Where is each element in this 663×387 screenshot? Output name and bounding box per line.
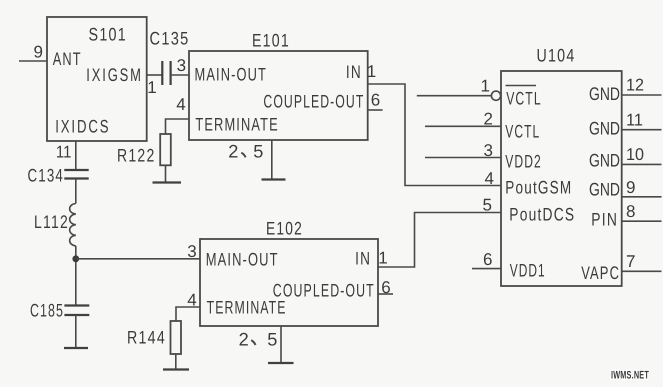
svg-text:2: 2: [228, 142, 238, 162]
svg-text:E101: E101: [252, 31, 290, 51]
wire E102 TERMINATE to R144: [176, 307, 200, 321]
svg-text:TERMINATE: TERMINATE: [195, 115, 278, 135]
svg-text:S101: S101: [89, 25, 128, 45]
svg-text:COUPLED-OUT: COUPLED-OUT: [273, 281, 375, 301]
svg-text:5: 5: [253, 142, 263, 162]
svg-text:12: 12: [626, 76, 644, 95]
svg-text:1: 1: [367, 62, 376, 81]
svg-text:6: 6: [371, 91, 380, 110]
svg-text:C135: C135: [150, 29, 190, 49]
pin 6 stub wire: [378, 293, 393, 295]
svg-text:VCTL: VCTL: [506, 89, 542, 109]
svg-text:1: 1: [378, 249, 387, 268]
svg-text:3: 3: [187, 242, 196, 261]
coupler E102: [200, 239, 378, 326]
svg-text:E102: E102: [266, 219, 303, 239]
svg-text:IN: IN: [355, 249, 371, 269]
svg-text:3: 3: [177, 56, 186, 75]
svg-text:C134: C134: [28, 166, 65, 186]
wire E102 ground stem: [280, 326, 282, 363]
svg-text:VDD2: VDD2: [505, 152, 542, 172]
svg-text:11: 11: [626, 111, 643, 130]
svg-text:5: 5: [267, 330, 277, 350]
svg-text:1: 1: [481, 77, 490, 96]
inversion bubble pin 1: [491, 91, 500, 100]
power amplifier U104: [501, 71, 622, 286]
svg-text:COUPLED-OUT: COUPLED-OUT: [263, 92, 364, 112]
wire E101 ground stem: [271, 140, 273, 179]
resistor R144: [171, 321, 182, 354]
ground (R144): [163, 368, 189, 370]
svg-text:U104: U104: [537, 46, 576, 66]
svg-text:GND: GND: [589, 119, 620, 139]
ground (E102 pins 2,5): [268, 362, 294, 364]
svg-text:6: 6: [483, 250, 492, 269]
svg-text:10: 10: [626, 145, 644, 164]
svg-text:R122: R122: [117, 146, 156, 166]
svg-text:VDD1: VDD1: [510, 261, 546, 281]
ground (C185): [64, 347, 88, 349]
svg-text:C185: C185: [30, 301, 64, 321]
wire to pin 3: [425, 157, 501, 159]
svg-text:IXIGSM: IXIGSM: [86, 65, 143, 85]
svg-text:1: 1: [147, 78, 156, 97]
wire junction to E102 MAIN-OUT: [76, 258, 200, 260]
svg-text:11: 11: [56, 143, 72, 162]
svg-text:GND: GND: [589, 180, 620, 200]
svg-text:L112: L112: [34, 212, 69, 232]
svg-text:8: 8: [626, 202, 635, 221]
svg-text:GND: GND: [589, 151, 620, 171]
wire to pin 6: [472, 268, 501, 270]
svg-text:IXIDCS: IXIDCS: [55, 117, 110, 137]
svg-text:PoutDCS: PoutDCS: [509, 205, 575, 225]
svg-text:R144: R144: [127, 328, 166, 348]
wire C135 to E101: [171, 74, 189, 76]
wire R122 to ground: [165, 165, 167, 182]
svg-text:PoutGSM: PoutGSM: [505, 178, 572, 198]
ground (E101 pins 2,5): [262, 178, 286, 180]
node junction dot: [72, 255, 79, 262]
pin 6 stub wire: [368, 109, 383, 111]
wire pin 10: [622, 163, 662, 165]
wire ANT pin 9: [19, 60, 47, 62]
wire E102 IN to U104 PoutDCS: [378, 213, 501, 268]
wire pin 9: [622, 196, 662, 198]
coupler E101: [189, 51, 368, 140]
wire pin 8: [622, 220, 662, 222]
svg-text:VAPC: VAPC: [581, 263, 620, 283]
svg-text:ANT: ANT: [53, 49, 82, 69]
wire C134 to L112: [75, 179, 77, 204]
svg-text:4: 4: [485, 169, 494, 188]
wire C185 to ground: [75, 315, 77, 348]
svg-text:2: 2: [239, 330, 249, 350]
resistor R122: [160, 134, 171, 165]
wire S101 to C135: [147, 74, 163, 76]
wire pin 11: [622, 129, 662, 131]
svg-text:MAIN-OUT: MAIN-OUT: [206, 250, 279, 270]
svg-text:MAIN-OUT: MAIN-OUT: [195, 65, 268, 85]
wire L112 to C185: [75, 246, 77, 306]
wire to pin 1: [417, 95, 491, 97]
antenna switch S101: [47, 17, 147, 141]
svg-text:5: 5: [483, 196, 492, 215]
svg-text:VCTL: VCTL: [505, 122, 540, 142]
svg-text:9: 9: [34, 43, 43, 62]
svg-text:7: 7: [626, 252, 635, 271]
wire E101 IN to U104 PoutGSM: [368, 84, 501, 186]
svg-text:GND: GND: [589, 84, 620, 104]
svg-text:IWMS.NET: IWMS.NET: [611, 370, 649, 382]
svg-text:TERMINATE: TERMINATE: [207, 298, 287, 318]
ground (R122): [153, 181, 182, 183]
svg-text:PIN: PIN: [591, 210, 618, 230]
wire E101 TERMINATE to R122: [166, 119, 190, 134]
wire to pin 2: [425, 125, 501, 127]
wire pin 12: [622, 94, 662, 96]
wire pin 7: [622, 270, 662, 272]
wire R144 to ground: [175, 354, 177, 369]
svg-text:IN: IN: [346, 62, 362, 82]
wire S101 pin 11 down: [75, 141, 77, 170]
svg-text:9: 9: [626, 178, 635, 197]
svg-text:4: 4: [176, 95, 185, 114]
